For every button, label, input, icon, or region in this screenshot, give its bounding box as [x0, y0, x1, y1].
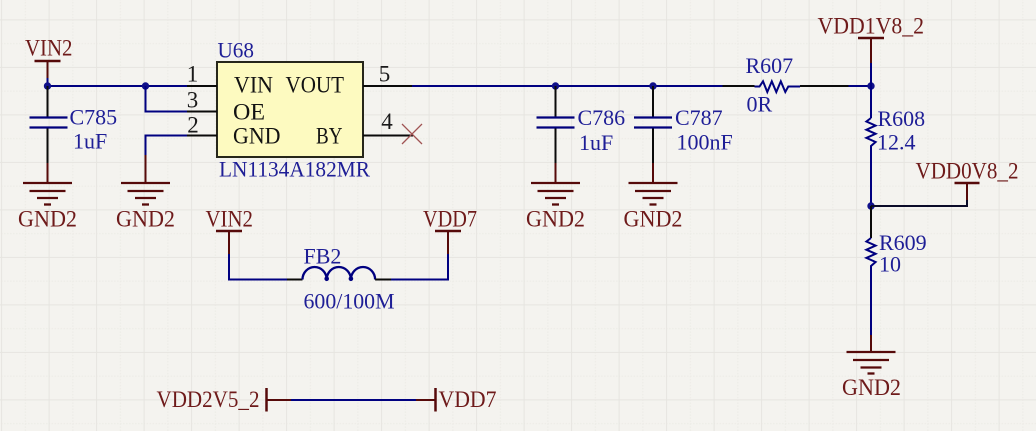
- svg-text:C787: C787: [675, 105, 723, 130]
- svg-text:GND2: GND2: [18, 207, 77, 233]
- svg-text:VIN2: VIN2: [206, 207, 254, 233]
- capacitor C785: [30, 86, 118, 164]
- pin 1: [187, 85, 217, 87]
- ground GND2 under C787: [624, 163, 683, 233]
- wire GND pin branch: [146, 136, 188, 156]
- pin 4: [363, 135, 413, 137]
- svg-text:U68: U68: [218, 38, 255, 63]
- svg-text:12.4: 12.4: [877, 130, 916, 155]
- wire input rail: [48, 85, 188, 87]
- svg-text:BY: BY: [316, 124, 343, 150]
- svg-text:VDD7: VDD7: [439, 387, 497, 413]
- no-connect X on pin 4: [402, 124, 422, 144]
- node junction at R607/VDD1V8_2: [867, 82, 874, 89]
- svg-text:600/100M: 600/100M: [304, 289, 395, 314]
- svg-text:1: 1: [187, 62, 199, 87]
- svg-text:3: 3: [187, 88, 199, 113]
- node junction at C787: [649, 82, 656, 89]
- node junction at VDD0V8_2 tap: [867, 202, 874, 209]
- svg-text:5: 5: [379, 62, 391, 87]
- wire FB2 to VDD7: [375, 279, 391, 281]
- svg-text:C786: C786: [578, 105, 626, 130]
- svg-text:VIN2: VIN2: [25, 36, 73, 62]
- svg-text:VDD7: VDD7: [423, 207, 477, 233]
- power port VDD0V8_2: [916, 159, 1019, 201]
- svg-text:GND2: GND2: [116, 207, 175, 233]
- svg-text:LN1134A182MR: LN1134A182MR: [219, 157, 370, 182]
- svg-text:10: 10: [879, 252, 901, 277]
- svg-text:100nF: 100nF: [677, 130, 733, 155]
- wire VIN2 to FB2: [229, 254, 287, 280]
- pin 3: [187, 111, 217, 113]
- wire VOUT rail: [412, 85, 723, 87]
- svg-text:VIN: VIN: [234, 73, 273, 99]
- svg-text:FB2: FB2: [304, 244, 342, 269]
- svg-text:1uF: 1uF: [579, 130, 613, 155]
- svg-text:GND2: GND2: [526, 207, 585, 233]
- ground GND2 under GND pin: [116, 183, 175, 233]
- resistor R607: [723, 53, 849, 117]
- svg-text:R608: R608: [878, 106, 926, 131]
- pin 5: [363, 85, 412, 87]
- svg-text:R607: R607: [746, 53, 794, 78]
- svg-text:4: 4: [381, 109, 393, 134]
- wire VDD2V5_2 to VDD7: [268, 399, 292, 401]
- svg-text:VOUT: VOUT: [286, 73, 345, 99]
- power port VIN2 at FB2: [206, 207, 254, 255]
- node junction at C786: [552, 82, 559, 89]
- resistor R608: [866, 86, 925, 206]
- node junction at OE branch: [142, 82, 149, 89]
- svg-text:GND: GND: [233, 124, 281, 150]
- power port VDD1V8_2: [818, 14, 925, 87]
- IC U68 body: [217, 38, 370, 182]
- capacitor C786: [537, 86, 626, 164]
- power port VIN2 top-left: [25, 36, 73, 87]
- ground GND2 under C785: [18, 163, 77, 233]
- svg-text:VDD0V8_2: VDD0V8_2: [916, 159, 1019, 185]
- svg-text:OE: OE: [233, 100, 265, 126]
- svg-text:GND2: GND2: [624, 207, 683, 233]
- svg-text:C785: C785: [70, 105, 118, 130]
- ground GND2 bottom right: [842, 352, 901, 401]
- ferrite bead FB2: [303, 244, 395, 314]
- wire R609 to ground: [870, 335, 872, 351]
- svg-text:1uF: 1uF: [73, 129, 107, 154]
- port tick right: [434, 388, 437, 412]
- svg-text:0R: 0R: [747, 92, 773, 117]
- capacitor C787: [634, 86, 733, 164]
- ground GND2 under C786: [526, 163, 585, 233]
- power port VDD7: [423, 207, 477, 255]
- pin 2: [187, 135, 217, 137]
- port tick left: [265, 388, 268, 412]
- svg-text:VDD1V8_2: VDD1V8_2: [818, 14, 925, 40]
- resistor R609: [866, 206, 926, 335]
- wire OE branch: [146, 86, 188, 112]
- wire tap to VDD0V8_2: [871, 199, 967, 206]
- svg-text:GND2: GND2: [842, 375, 901, 401]
- svg-text:2: 2: [187, 113, 199, 138]
- node junction at VIN2/C785: [44, 82, 51, 89]
- svg-text:VDD2V5_2: VDD2V5_2: [157, 387, 260, 413]
